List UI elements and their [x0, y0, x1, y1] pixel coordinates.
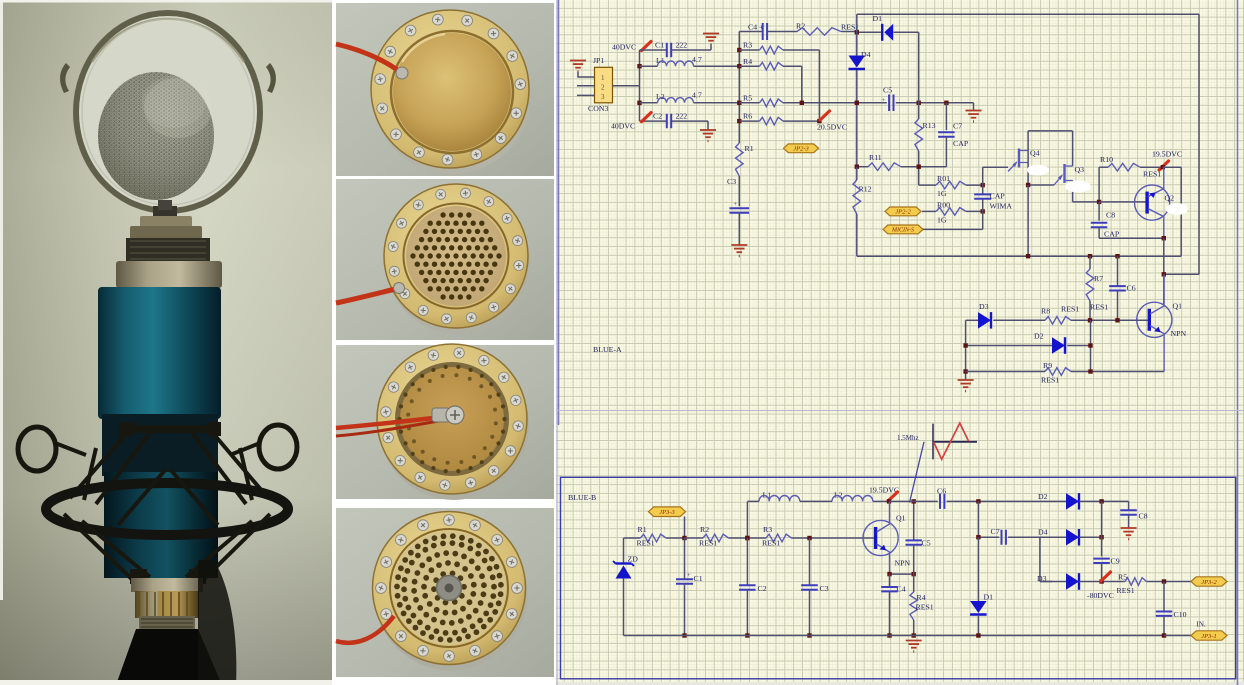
inductor L1 (B) — [747, 491, 832, 539]
wire D4-D3 anode link — [1040, 537, 1052, 581]
vertical D4 branch — [856, 14, 858, 167]
svg-text:3: 3 — [601, 93, 605, 101]
junction R7 top — [1088, 254, 1092, 258]
ground below C2 — [700, 121, 716, 142]
resistor R13 vertical — [915, 119, 936, 185]
photo: lower brass connector of mic — [131, 578, 203, 592]
capacitor C8 CAP — [1091, 202, 1164, 239]
capacitor C5 (B) — [906, 501, 931, 574]
svg-text:JP3-2: JP3-2 — [1201, 579, 1217, 586]
svg-text:C2: C2 — [653, 112, 662, 121]
net tag JP2-3 — [784, 144, 819, 153]
junction 19.5DVC node — [1161, 165, 1165, 169]
capacitor CAP WIMA — [974, 185, 1012, 211]
resistor R5 — [739, 93, 887, 106]
wire D3 column — [965, 320, 967, 380]
junction D4 cathode — [1099, 535, 1103, 539]
junction R9 left — [963, 369, 967, 373]
vertical D1 to R13 — [918, 32, 920, 119]
red mark 19.5DVC — [1159, 161, 1169, 170]
junction R1-C1 — [682, 536, 686, 540]
ground below C3 — [731, 245, 747, 257]
svg-text:RES1: RES1 — [1117, 586, 1135, 595]
svg-text:4.7: 4.7 — [692, 55, 702, 64]
svg-text:D4: D4 — [1038, 528, 1048, 537]
svg-text:D1: D1 — [984, 593, 994, 602]
photo: ring stem and bracket — [153, 206, 177, 218]
junction R4-R5 — [800, 101, 804, 105]
junction C5 left — [855, 101, 859, 105]
svg-text:MICIN-S: MICIN-S — [891, 228, 914, 234]
diode D1 (B) — [970, 537, 993, 635]
photo: studio wall background — [0, 0, 332, 685]
resistor R4 RES1 vertical (B) — [910, 574, 934, 635]
svg-text:C8: C8 — [1106, 211, 1115, 220]
svg-text:R1: R1 — [745, 144, 754, 153]
wire node vertical — [639, 50, 641, 121]
transistor Q4 — [1008, 149, 1040, 172]
red mark 20.5DVC — [820, 111, 830, 120]
junction R9 link — [1088, 369, 1092, 373]
svg-text:C10: C10 — [1174, 610, 1187, 619]
transistor Q2 — [1099, 167, 1174, 238]
svg-text:R3: R3 — [763, 525, 772, 534]
junction Q4 source — [1026, 183, 1030, 187]
svg-text:Q3: Q3 — [1075, 165, 1085, 174]
svg-text:R11: R11 — [869, 153, 882, 162]
resistor R5 RES1 (B) — [1117, 573, 1192, 596]
junction R7 bottom — [1088, 318, 1092, 322]
wire rail to JP3-1 — [1164, 635, 1192, 637]
svg-text:C3: C3 — [727, 177, 736, 186]
photo: capsule 2 red lead wire — [336, 289, 396, 303]
capacitor C9 (B) — [1093, 557, 1119, 582]
svg-text:222: 222 — [676, 41, 688, 50]
capacitor C8 (B) — [1120, 501, 1147, 528]
capacitor C6 — [1109, 256, 1136, 320]
photo: capsule 3 backplate with centre terminal — [336, 344, 554, 500]
svg-text:R6: R6 — [743, 112, 752, 121]
photo: capsule 1 front (gold diaphragm) — [336, 3, 554, 176]
transistor Q3 — [1054, 164, 1084, 185]
capacitor C2 222 — [640, 112, 709, 129]
svg-text:C3: C3 — [820, 584, 829, 593]
white blob over Q2 — [1166, 203, 1188, 215]
wire Q4 bias box — [1028, 131, 1073, 185]
photo: capsule 2 back (perforated) — [336, 179, 554, 340]
svg-text:R3: R3 — [743, 41, 752, 50]
wire JP1 to filter node — [613, 85, 640, 87]
svg-text:20.5DVC: 20.5DVC — [817, 123, 847, 132]
svg-text:1G: 1G — [937, 215, 947, 224]
sheet A right border — [1237, 0, 1239, 685]
net tag JP3-1 — [1191, 631, 1227, 640]
junction D2 cathode — [1099, 499, 1103, 503]
resistor R9 RES1 — [966, 361, 1165, 385]
zener diode ZD — [613, 538, 638, 636]
svg-text:D2: D2 — [1038, 492, 1048, 501]
svg-text:1G: 1G — [937, 189, 947, 198]
svg-text:40DVC: 40DVC — [611, 122, 635, 131]
capacitor C1 222 — [640, 41, 712, 58]
long rail wire — [857, 255, 1181, 257]
svg-text:+: + — [687, 572, 691, 579]
diode D1 — [857, 14, 919, 41]
junction R5 — [737, 101, 741, 105]
svg-text:1: 1 — [601, 74, 605, 82]
transistor Q1 NPN — [1137, 274, 1187, 371]
junction C9 bottom — [1099, 579, 1103, 583]
svg-text:R7: R7 — [1094, 274, 1103, 283]
junction collector node — [887, 499, 891, 503]
wire R01 node to Q4 gate — [983, 167, 1008, 185]
junction R6 — [737, 119, 741, 123]
photo: teal mic body lower — [104, 472, 218, 578]
junction emitter right — [912, 572, 916, 576]
capacitor C3 (B) — [801, 538, 829, 636]
photo: yoke prongs — [60, 63, 70, 93]
white blob over Q4 — [1027, 165, 1049, 176]
red mark 40DVC top — [642, 42, 652, 51]
annotation pointer line — [910, 442, 925, 503]
wire R10 left vertical — [1098, 167, 1100, 202]
wire D2 D4 cathode column — [1101, 501, 1103, 556]
ground below R4 — [906, 641, 922, 653]
wire R8-R9 link vertical — [1090, 320, 1092, 371]
ground at JP1 pin 1 — [570, 61, 595, 78]
svg-text:RES1: RES1 — [1090, 303, 1108, 312]
annotation red waveform — [934, 423, 969, 459]
wire 19.5DVC node to long rail — [1163, 167, 1181, 256]
ground below D3 column — [958, 380, 974, 392]
photo: mic body mid shadow band — [102, 414, 218, 476]
svg-text:NPN: NPN — [895, 559, 911, 568]
svg-text:R13: R13 — [923, 121, 936, 130]
junction R11-R13 — [917, 165, 921, 169]
svg-text:R4: R4 — [743, 57, 752, 66]
svg-text:Q1: Q1 — [896, 514, 906, 523]
junction C1 rail — [682, 633, 686, 637]
capacitor C5 polarized — [882, 86, 974, 112]
node junction L2 — [637, 101, 641, 105]
schematic sheet background grid — [556, 0, 1244, 682]
capacitor C6 (B) — [937, 487, 1066, 509]
svg-text:ZD: ZD — [628, 555, 639, 564]
ground above C1 — [703, 34, 719, 51]
svg-text:C9: C9 — [1111, 557, 1120, 566]
diode D2 — [966, 332, 1091, 354]
wire Q3 collector to R10 node — [1073, 181, 1100, 202]
capacitor C7 (B) — [991, 527, 1067, 545]
junction loop return — [1162, 272, 1166, 276]
wire top loop from D1 node — [857, 14, 1199, 274]
resistor R12 vertical — [853, 167, 872, 257]
svg-text:BLUE-A: BLUE-A — [593, 345, 622, 354]
junction base node — [807, 536, 811, 540]
svg-text:RES1: RES1 — [916, 603, 934, 612]
capacitor C4 — [739, 23, 797, 41]
diode D4 (B) — [1038, 528, 1102, 546]
svg-text:D2: D2 — [1034, 332, 1044, 341]
red mark -80DVC — [1101, 572, 1111, 581]
svg-text:C4 +: C4 + — [748, 23, 764, 32]
photo: teal mic body upper — [98, 287, 221, 419]
svg-text:+: + — [734, 201, 738, 208]
capacitor C3 polarized — [727, 177, 749, 245]
svg-text:2: 2 — [601, 84, 605, 92]
photo: capsule 1 red lead wire — [336, 44, 399, 71]
svg-text:1.5Mhz: 1.5Mhz — [897, 434, 919, 442]
ground below C8 (B) — [1121, 528, 1137, 540]
svg-text:R2: R2 — [700, 525, 709, 534]
net tag JP3-3 — [649, 507, 686, 517]
junction R5 right — [1162, 579, 1166, 583]
wire Q3 emitter row — [1028, 184, 1054, 186]
red mark 40DVC bottom — [642, 113, 652, 122]
photo: shock mount side loops — [18, 427, 56, 471]
junction R01 right — [981, 183, 985, 187]
wire MICIN-S to R00 node — [923, 211, 983, 229]
resistor R1 RES1 (B) — [624, 525, 685, 548]
svg-text:C7: C7 — [953, 122, 962, 131]
svg-text:222: 222 — [676, 112, 688, 121]
photo: shock mount lower arms — [64, 469, 270, 585]
capacitor C7 CAP — [901, 103, 969, 167]
photo: silver top cap of mic body — [116, 261, 222, 288]
bus vertical at R3-R6 left — [738, 32, 740, 144]
svg-text:C2: C2 — [758, 584, 767, 593]
inductor L2 4.7 — [640, 91, 740, 103]
svg-text:JP3-3: JP3-3 — [659, 509, 675, 516]
resistor R3 — [739, 41, 819, 122]
junction rail Q4 column — [1026, 254, 1030, 258]
svg-text:BLUE-B: BLUE-B — [568, 493, 596, 502]
svg-text:R1: R1 — [638, 525, 647, 534]
resistor R6 — [739, 112, 819, 125]
junction Q2 emitter — [1162, 236, 1166, 240]
junction C6 bottom — [1115, 318, 1119, 322]
diode D2 (B) — [1038, 492, 1129, 510]
junction D1 rail — [976, 633, 980, 637]
wire Q4 column to long rail — [1027, 185, 1029, 256]
wire JP3-3 down — [684, 516, 686, 538]
resistor R01 1G — [936, 174, 983, 198]
svg-text:Q1: Q1 — [1173, 302, 1183, 311]
junction D2 left — [963, 343, 967, 347]
photo: shock mount upper arms — [70, 424, 268, 504]
junction Q2 base node — [1097, 200, 1101, 204]
net tag JP3-2 — [1191, 577, 1227, 586]
svg-text:CAP: CAP — [1104, 230, 1120, 239]
white blob over Q3 — [1065, 181, 1091, 193]
photo: capsule 3 red lead wires to centre — [336, 417, 442, 428]
photo: capsule 4 back with concentric holes — [336, 508, 554, 677]
inductor L1 4.7 — [640, 55, 740, 66]
junction R3-C2 — [745, 536, 749, 540]
svg-text:JP1: JP1 — [593, 56, 604, 65]
svg-text:R8: R8 — [1041, 307, 1050, 316]
photo: shock mount ring — [46, 483, 288, 535]
junction rail JP3-1 — [1162, 633, 1166, 637]
svg-text:D1: D1 — [873, 14, 883, 23]
svg-text:CAP: CAP — [953, 139, 969, 148]
svg-text:RES1: RES1 — [699, 539, 717, 548]
svg-text:Q4: Q4 — [1030, 149, 1040, 158]
junction C3 rail — [807, 633, 811, 637]
connector JP1 (CON3) — [588, 56, 613, 113]
node junction L1 — [637, 64, 641, 68]
svg-text:40DVC: 40DVC — [612, 43, 636, 52]
resistor R8 RES1 — [1041, 305, 1079, 325]
resistor R1 vertical — [736, 143, 754, 206]
svg-text:RES1: RES1 — [1041, 376, 1059, 385]
svg-text:IN.: IN. — [1197, 621, 1206, 629]
wire collector row to C6 — [889, 500, 938, 502]
svg-text:NPN: NPN — [1171, 329, 1187, 338]
svg-text:D3: D3 — [979, 302, 989, 311]
diode D3 — [966, 302, 1045, 329]
wire Q1 base row — [1071, 319, 1148, 321]
ground right of C5 — [966, 103, 982, 123]
capacitor C4 (B) — [881, 574, 906, 635]
svg-text:C5: C5 — [883, 86, 892, 95]
sheet A bottom edge — [556, 410, 1244, 412]
transistor Q1 NPN (B) — [863, 501, 910, 574]
capacitor C2 (B) — [739, 538, 767, 636]
diode D4 — [849, 50, 871, 69]
svg-text:RES1: RES1 — [762, 539, 780, 548]
svg-text:RES1: RES1 — [637, 539, 655, 548]
junction D2 right — [1088, 343, 1092, 347]
sheet A left border — [558, 0, 560, 425]
resistor R4 — [739, 57, 802, 103]
junction R4 rail — [912, 633, 916, 637]
svg-text:-80DVC: -80DVC — [1087, 591, 1114, 600]
junction C4 rail — [887, 633, 891, 637]
junction C7 top — [944, 101, 948, 105]
svg-text:L2: L2 — [656, 92, 665, 101]
svg-text:C1: C1 — [694, 574, 703, 583]
svg-text:C8: C8 — [1139, 512, 1148, 521]
junction C7 left — [976, 535, 980, 539]
net tag JP2-2 — [885, 207, 921, 216]
resistor R10 RES1 — [1099, 155, 1163, 179]
photo: black xlr base — [116, 629, 222, 685]
capacitor C10 (B) — [1156, 582, 1187, 636]
svg-text:WIMA: WIMA — [990, 202, 1013, 211]
wire JP1 pin 3 stub — [577, 94, 595, 96]
junction R3 — [737, 48, 741, 52]
svg-text:JP2-2: JP2-2 — [895, 209, 911, 216]
svg-text:R10: R10 — [1100, 155, 1113, 164]
resistor R00 1G — [922, 200, 983, 224]
wire Q2 emitter down — [1163, 238, 1165, 304]
diode D3 (B) — [1037, 573, 1125, 590]
photo: pop filter ring — [76, 13, 260, 211]
svg-text:C6: C6 — [1127, 284, 1136, 293]
svg-text:R5: R5 — [743, 93, 752, 102]
junction R00 right — [981, 209, 985, 213]
svg-text:JP3-1: JP3-1 — [1201, 633, 1217, 640]
svg-text:RES1: RES1 — [1061, 305, 1079, 314]
svg-text:C4: C4 — [897, 585, 906, 594]
svg-text:CON3: CON3 — [588, 104, 608, 113]
bottom rail wire (B) — [624, 635, 1165, 637]
resistor R11 — [857, 153, 901, 171]
junction 20.5DVC node — [817, 119, 821, 123]
wire Q1B emitter row — [890, 573, 914, 575]
photo: capsule 4 red lead wire — [336, 616, 394, 643]
junction emitter — [887, 572, 891, 576]
junction C2 rail — [745, 633, 749, 637]
wire JP1 pin 2 stub — [577, 85, 595, 87]
junction R11 left — [855, 165, 859, 169]
svg-text:+: + — [882, 97, 886, 104]
svg-text:C7: C7 — [991, 527, 1000, 536]
resistor R7 RES1 vertical — [1086, 256, 1108, 320]
inductor L2 (B) — [832, 491, 889, 502]
capacitor C1 polarized (B) — [676, 538, 703, 636]
wire C7 row — [978, 501, 999, 537]
junction R2-L1 — [745, 536, 749, 540]
sheet B border box — [561, 477, 1236, 679]
svg-text:4.7: 4.7 — [692, 91, 702, 100]
net tag MICIN-S — [883, 225, 923, 234]
annotation axis — [932, 424, 934, 460]
resistor R2 RES1 (B) — [685, 525, 748, 548]
junction D1 left — [855, 30, 859, 34]
svg-text:C5: C5 — [922, 539, 931, 548]
junction C5 right — [917, 101, 921, 105]
junction C5 top — [912, 499, 916, 503]
junction R4 — [737, 64, 741, 68]
svg-text:19.5DVC: 19.5DVC — [1152, 150, 1182, 159]
red mark 19.5DVC (B) — [888, 492, 898, 501]
svg-text:CAP: CAP — [990, 192, 1006, 201]
svg-text:C1: C1 — [655, 41, 664, 50]
svg-text:Q2: Q2 — [1165, 194, 1175, 203]
resistor R2 RES1 — [796, 22, 859, 36]
photo: microphone mesh ball — [98, 72, 214, 200]
wire R13 to R01 — [919, 184, 936, 186]
junction C6 right — [976, 499, 980, 503]
resistor R3 RES1 (B) — [747, 525, 874, 548]
svg-text:JP2-3: JP2-3 — [793, 146, 809, 153]
junction C6 top — [1115, 254, 1119, 258]
